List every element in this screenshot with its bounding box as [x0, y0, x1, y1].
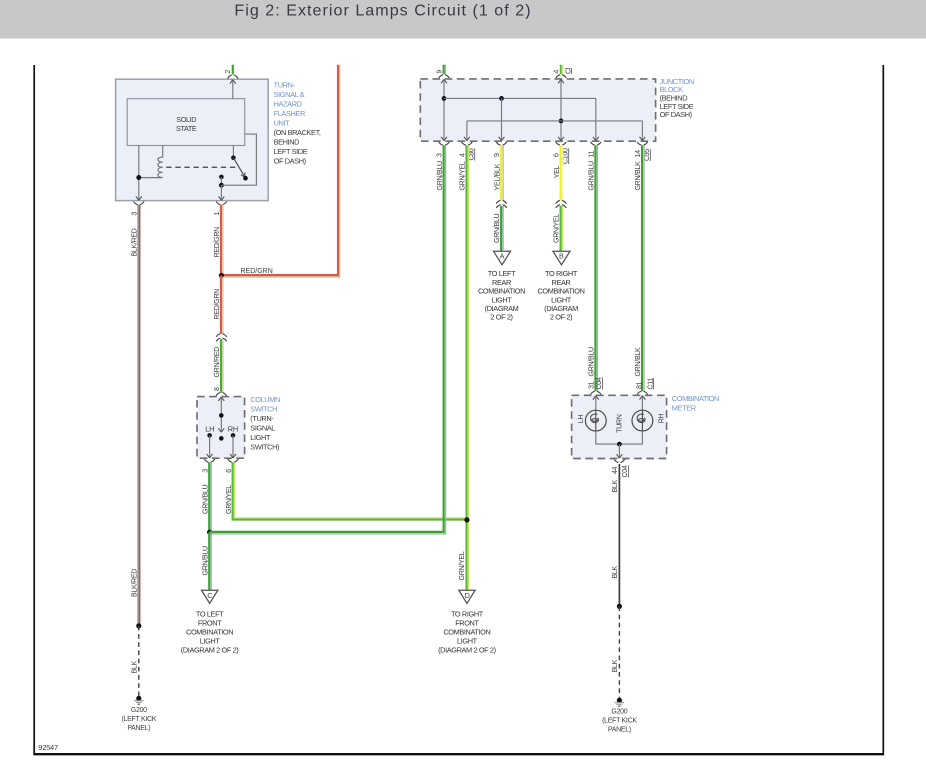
svg-text:COMBINATION: COMBINATION: [478, 287, 525, 296]
wire GRN/YEL column pin6 to junction D: [225, 462, 467, 519]
svg-text:RED/GRN: RED/GRN: [213, 289, 221, 320]
node flasher blade tip: [243, 176, 248, 181]
junction block wire to pin 11: [593, 98, 599, 140]
combination meter box: [572, 395, 667, 458]
node flasher contact: [219, 175, 224, 180]
flasher internal wire to pin 1: [219, 185, 225, 200]
svg-text:STATE: STATE: [176, 124, 197, 133]
flasher pin 2 internal wire: [230, 80, 236, 99]
svg-text:LIGHT: LIGHT: [200, 636, 221, 645]
svg-text:COLUMN: COLUMN: [250, 395, 280, 404]
junction pin 4 connector arc: [459, 142, 476, 161]
svg-text:LIGHT: LIGHT: [492, 295, 513, 304]
svg-text:LH: LH: [205, 425, 214, 434]
flasher relay coil: [139, 146, 163, 178]
wire GRN/YEL stub junction pin 4 top: [552, 65, 572, 78]
wire YEL junction pin6: [553, 145, 563, 200]
svg-text:LIGHT: LIGHT: [551, 295, 572, 304]
svg-text:COMBINATION: COMBINATION: [672, 394, 719, 403]
column switch pin 3 connector arc: [201, 459, 215, 473]
junction block box: [420, 79, 655, 141]
svg-text:SIGNAL: SIGNAL: [250, 423, 275, 432]
svg-text:(ON BRACKET,: (ON BRACKET,: [274, 128, 321, 137]
node flasher pivot: [231, 156, 236, 161]
column switch pin 6 connector arc: [225, 459, 239, 473]
svg-text:GRN/BLU: GRN/BLU: [436, 161, 444, 190]
ground G200 right: [602, 698, 637, 734]
svg-text:METER: METER: [672, 404, 696, 413]
wire RED/GRN flasher pin1 upper: [213, 205, 223, 276]
flasher contact stub wire: [220, 177, 222, 185]
svg-text:2 OF 2): 2 OF 2): [490, 313, 512, 322]
svg-text:RED/GRN: RED/GRN: [241, 268, 273, 275]
node GRN/BLU junction: [207, 530, 212, 535]
meter pin 31 connector arc: [591, 391, 602, 394]
flasher switch blade: [233, 158, 245, 178]
svg-text:Cl: Cl: [564, 67, 572, 74]
meter wire to pin 44: [617, 444, 623, 458]
svg-text:GRN/BLU: GRN/BLU: [588, 347, 596, 376]
svg-text:G200: G200: [611, 709, 627, 716]
flasher feedback loop wire: [221, 134, 256, 185]
svg-text:COMBINATION: COMBINATION: [186, 627, 233, 636]
junction pin 9 connector arc: [493, 142, 507, 157]
flasher internal wire to pin 3: [136, 146, 142, 201]
flasher label text: [274, 80, 321, 165]
flasher unit box: [116, 79, 269, 200]
svg-text:SWITCH): SWITCH): [250, 442, 279, 451]
wire GRN/BLU column pin3 down: [201, 462, 211, 532]
wire RED/GRN feed vertical: [337, 65, 339, 277]
junction pin 6 connector arc: [553, 142, 570, 164]
meter lamp return wires: [596, 431, 643, 444]
svg-text:C04: C04: [595, 377, 603, 389]
svg-text:4: 4: [459, 153, 467, 157]
svg-text:(DIAGRAM 2 OF 2): (DIAGRAM 2 OF 2): [181, 645, 239, 654]
junction block wire pin4-pin6: [558, 79, 564, 140]
wire BLK/RED flasher pin3 to ground: [131, 205, 140, 626]
svg-text:TO LEFT: TO LEFT: [488, 269, 516, 278]
column switch pin 8 connector arc: [216, 392, 227, 395]
svg-text:GRN/YEL: GRN/YEL: [459, 161, 467, 190]
svg-text:4: 4: [552, 70, 560, 74]
svg-text:6: 6: [553, 153, 561, 157]
junction block wire to pin 9 bottom: [499, 98, 505, 140]
connector inline RED/GRN-GRN/RED: [216, 334, 227, 342]
svg-text:BLK: BLK: [611, 479, 619, 492]
svg-text:3: 3: [436, 153, 444, 157]
node junction h1 left: [442, 96, 447, 101]
junction block wire pin9-pin3: [441, 79, 447, 140]
svg-text:(LEFT KICK: (LEFT KICK: [121, 716, 156, 723]
svg-text:BEHIND: BEHIND: [274, 137, 300, 146]
svg-text:RH: RH: [228, 425, 238, 434]
wire GRN/YEL to triangle B: [552, 206, 562, 252]
svg-text:HAZARD: HAZARD: [274, 99, 302, 108]
svg-text:COMBINATION: COMBINATION: [443, 627, 490, 636]
svg-text:44: 44: [611, 466, 619, 474]
meter pin 44 connector arc: [611, 459, 629, 477]
meter LH lamp wire: [593, 396, 599, 411]
triangle D: [459, 590, 475, 603]
svg-text:LH: LH: [577, 415, 585, 424]
flasher pin 3 connector arc: [134, 202, 145, 205]
svg-text:GRN/BLK: GRN/BLK: [634, 347, 642, 376]
svg-text:11: 11: [587, 150, 595, 157]
column switch RH contact: [228, 425, 238, 458]
wire BLK meter pin44 down: [611, 464, 619, 606]
node RED/GRN splice: [219, 273, 224, 278]
svg-text:GRN/BLK: GRN/BLK: [634, 161, 642, 190]
wire GRN/BLU junction pin3 to splice: [210, 145, 446, 534]
svg-text:LIGHT: LIGHT: [250, 433, 271, 442]
wire BLK dashed to ground G200 left: [131, 626, 139, 699]
svg-text:TURN-: TURN-: [274, 80, 296, 89]
node junction h2 mid: [559, 119, 564, 124]
svg-text:REAR: REAR: [492, 278, 511, 287]
connector inline YEL/BLK-GRN/BLU: [496, 200, 507, 208]
node column switch common: [219, 413, 224, 418]
svg-text:SWITCH: SWITCH: [250, 404, 277, 413]
wire GRN stub pin 2: [232, 65, 234, 75]
svg-text:PANEL): PANEL): [127, 725, 150, 732]
svg-text:OF DASH): OF DASH): [274, 156, 306, 165]
svg-text:LIGHT: LIGHT: [457, 636, 478, 645]
flasher switch pivot wire: [232, 146, 234, 158]
svg-text:BLK/RED: BLK/RED: [131, 569, 139, 597]
svg-text:BLK: BLK: [131, 660, 139, 673]
node BLK/RED splice: [136, 623, 141, 628]
triangle D destination text: [438, 609, 496, 654]
svg-text:9: 9: [493, 153, 501, 157]
svg-text:92547: 92547: [38, 743, 58, 752]
wire GRN/BLU junction pin11 to meter pin31: [588, 145, 598, 391]
lamp RH turn indicator: [632, 410, 653, 431]
svg-text:OF DASH): OF DASH): [660, 110, 692, 119]
column switch box: [197, 397, 245, 459]
svg-text:BLK: BLK: [611, 565, 619, 578]
node flasher coil junction: [136, 175, 141, 180]
svg-text:81: 81: [636, 381, 644, 389]
combination meter label text: [672, 394, 719, 413]
svg-text:(DIAGRAM: (DIAGRAM: [485, 304, 519, 313]
svg-text:(DIAGRAM 2 OF 2): (DIAGRAM 2 OF 2): [438, 645, 496, 654]
svg-text:GRN/BLU: GRN/BLU: [493, 214, 501, 243]
wire YEL/BLK junction pin9: [493, 145, 503, 200]
triangle C destination text: [181, 609, 239, 654]
svg-text:GRN/YEL: GRN/YEL: [458, 551, 466, 580]
connector inline YEL-GRN/YEL: [556, 200, 567, 208]
triangle A: [494, 251, 511, 265]
svg-text:14: 14: [634, 150, 642, 158]
svg-text:RED/GRN: RED/GRN: [213, 227, 221, 258]
wire GRN/BLU to triangle C: [201, 532, 211, 590]
svg-text:D: D: [465, 591, 470, 600]
title bar: [0, 0, 926, 39]
svg-text:GRN/YEL: GRN/YEL: [225, 485, 233, 514]
meter pin 31 labels: [588, 377, 604, 389]
lamp LH turn indicator: [585, 410, 606, 431]
wire RED/GRN feed horizontal: [221, 268, 339, 277]
junction block wire to pin 4 bottom: [464, 121, 470, 141]
triangle B: [553, 251, 570, 265]
node column switch blade tip: [219, 436, 224, 441]
svg-text:GRN/BLU: GRN/BLU: [201, 546, 209, 575]
svg-text:FRONT: FRONT: [198, 618, 222, 627]
junction block bus wire h1: [444, 97, 596, 99]
svg-text:2: 2: [224, 70, 232, 74]
node BLK splice right: [617, 604, 622, 609]
flasher pin 1 connector arc: [216, 202, 227, 205]
svg-text:LEFT SIDE: LEFT SIDE: [274, 147, 308, 156]
triangle C: [202, 590, 218, 603]
svg-text:YEL/BLK: YEL/BLK: [493, 163, 501, 190]
svg-text:8: 8: [213, 387, 221, 391]
node meter return: [617, 442, 622, 447]
svg-text:GRN/BLU: GRN/BLU: [201, 485, 209, 514]
node flasher pin1 junction: [219, 183, 224, 188]
ground G200 left: [121, 696, 156, 732]
wire RED/GRN flasher pin1 lower: [213, 276, 223, 334]
svg-text:TO LEFT: TO LEFT: [196, 609, 224, 618]
svg-text:A: A: [500, 252, 505, 261]
triangle A destination text: [478, 269, 525, 322]
svg-text:C: C: [207, 591, 212, 600]
junction block wire to pin 14: [640, 121, 646, 141]
meter pin 81 connector arc: [637, 391, 648, 394]
svg-text:GRN/BLU: GRN/BLU: [588, 161, 596, 190]
column switch label text: [250, 395, 280, 452]
meter RH lamp wire: [640, 396, 646, 411]
svg-text:TO RIGHT: TO RIGHT: [545, 269, 578, 278]
junction block label text: [660, 77, 694, 119]
svg-text:BLK/RED: BLK/RED: [131, 228, 139, 256]
junction pin 14 connector arc: [634, 142, 651, 161]
svg-text:RH: RH: [657, 413, 665, 423]
meter pin 81 labels: [636, 378, 655, 390]
svg-text:TO RIGHT: TO RIGHT: [451, 609, 484, 618]
svg-text:Fig 2: Exterior Lamps Circuit: Fig 2: Exterior Lamps Circuit (1 of 2): [234, 1, 531, 19]
wire GRN/BLK junction pin14 to meter pin81: [634, 145, 644, 391]
svg-text:G200: G200: [131, 707, 147, 714]
svg-text:SOLID: SOLID: [176, 115, 196, 124]
svg-text:SIGNAL &: SIGNAL &: [274, 90, 305, 99]
svg-text:BLK: BLK: [611, 659, 619, 672]
wire BLK dashed to ground G200 right: [611, 606, 619, 700]
wire GRN/RED to column switch pin 8: [213, 339, 223, 393]
node GRN/YEL junction: [464, 517, 469, 522]
junction pin 11 connector arc: [587, 142, 601, 158]
svg-text:(TURN-: (TURN-: [250, 414, 274, 423]
svg-text:YEL: YEL: [553, 165, 561, 178]
flasher mechanical link dashed: [166, 166, 235, 168]
triangle B destination text: [537, 269, 584, 322]
svg-text:B: B: [559, 252, 564, 261]
junction pin 3 connector arc: [436, 142, 450, 157]
wire GRN/YEL junction pin4 to triangle D: [458, 145, 469, 590]
svg-text:GRN/RED: GRN/RED: [213, 347, 221, 378]
svg-text:FLASHER: FLASHER: [274, 109, 305, 118]
svg-text:C11: C11: [646, 378, 654, 390]
svg-text:UNIT: UNIT: [274, 118, 291, 127]
node junction h1 mid: [499, 96, 504, 101]
svg-text:(DIAGRAM: (DIAGRAM: [544, 304, 578, 313]
svg-text:COMBINATION: COMBINATION: [537, 287, 584, 296]
column switch LH contact: [205, 425, 214, 458]
svg-text:TURN: TURN: [616, 414, 624, 433]
svg-text:FRONT: FRONT: [455, 618, 479, 627]
column switch common wire: [218, 397, 224, 432]
wire GRN/BLU to triangle A: [493, 206, 503, 252]
junction block bus wire h2: [467, 120, 643, 122]
flasher pin 2 connector arc: [228, 75, 239, 78]
svg-text:9: 9: [435, 70, 443, 74]
svg-text:2 OF 2): 2 OF 2): [550, 313, 572, 322]
svg-text:(LEFT KICK: (LEFT KICK: [602, 718, 637, 725]
wire GRN stub junction pin 9 top: [435, 65, 449, 78]
svg-text:PANEL): PANEL): [608, 727, 631, 734]
svg-text:C04: C04: [621, 465, 629, 477]
flasher solid state module: [127, 99, 245, 146]
svg-text:REAR: REAR: [552, 278, 571, 287]
svg-text:GRN/YEL: GRN/YEL: [552, 214, 560, 243]
